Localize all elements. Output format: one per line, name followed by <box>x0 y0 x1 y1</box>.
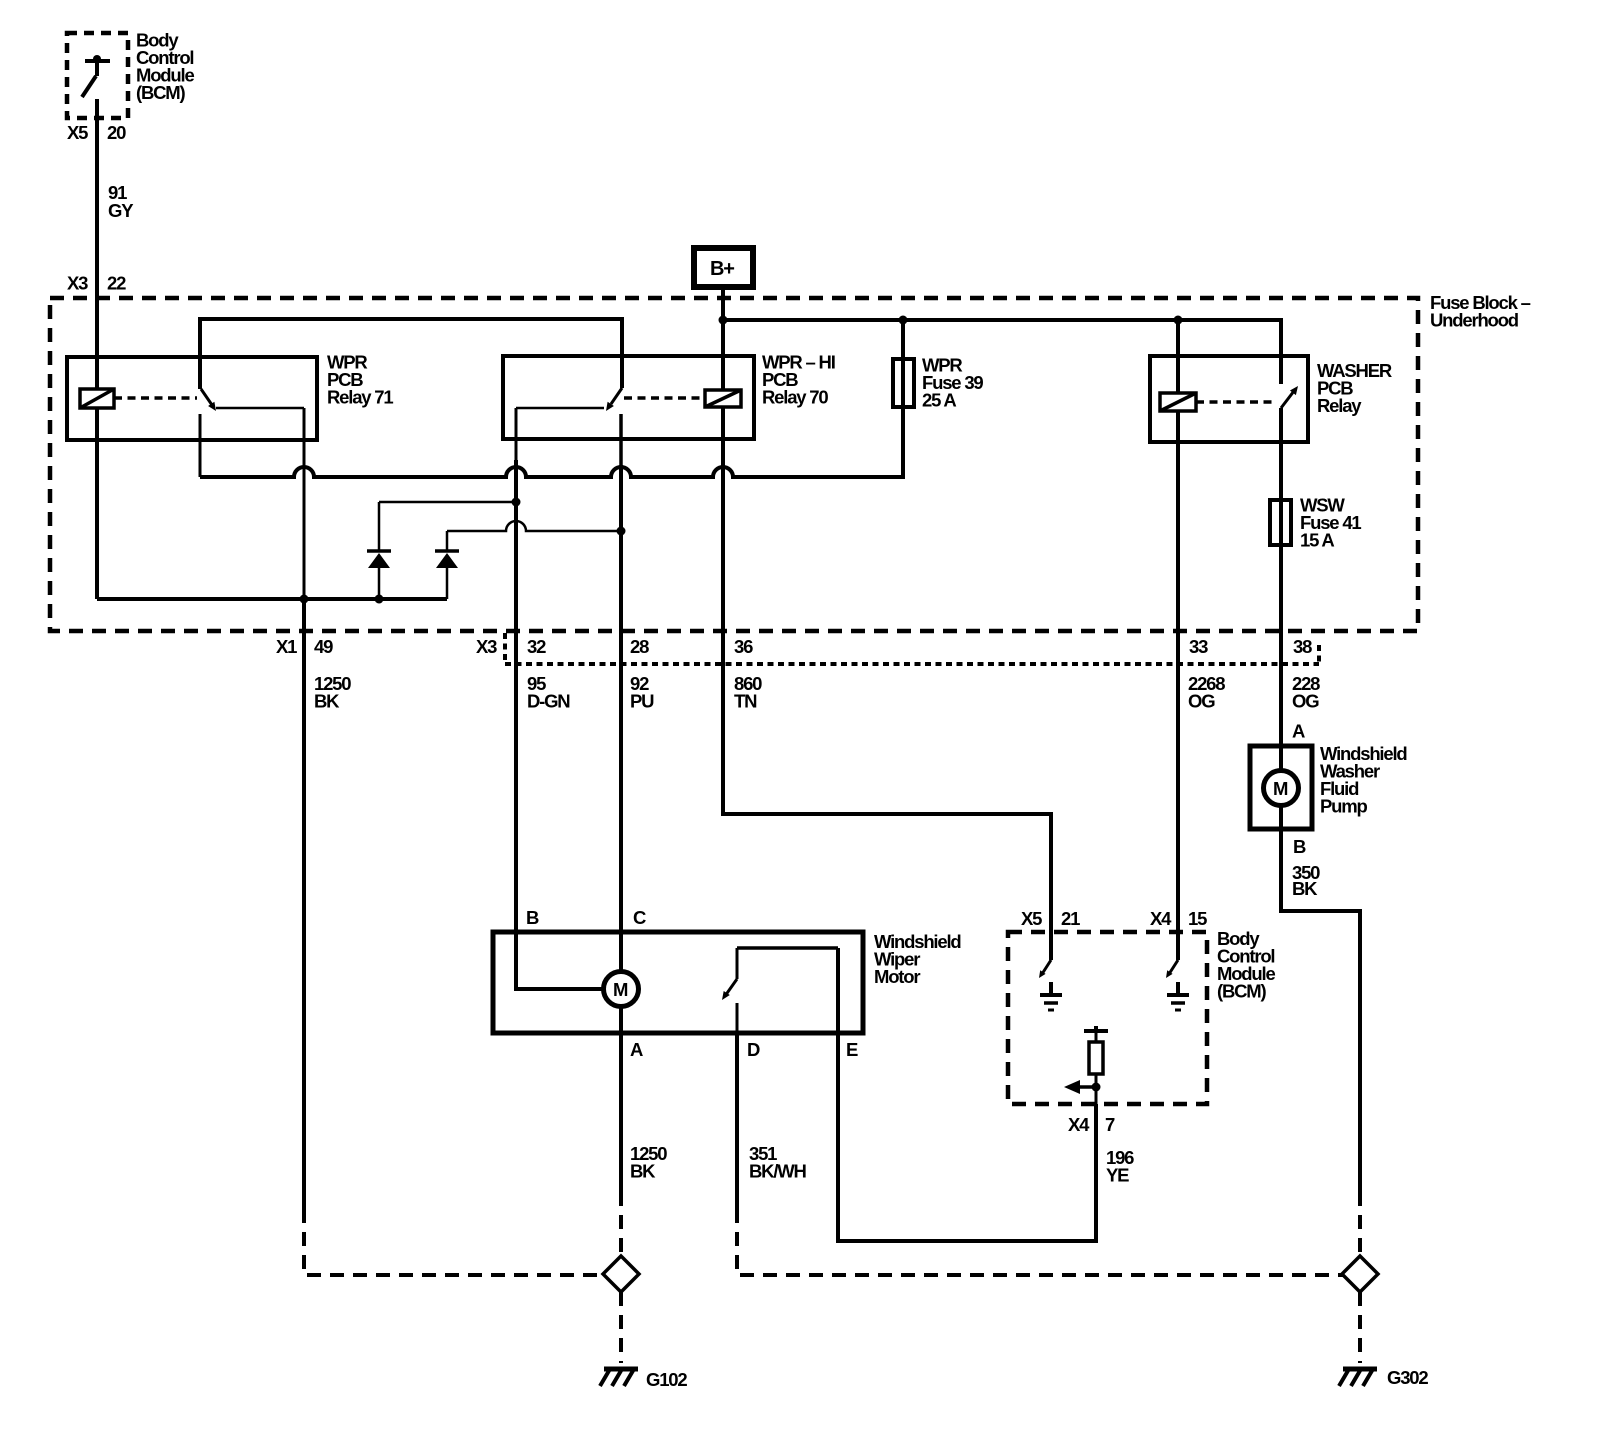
svg-text:D: D <box>747 1039 760 1060</box>
svg-text:21: 21 <box>1061 908 1080 929</box>
svg-text:B: B <box>526 907 539 928</box>
svg-text:X3: X3 <box>67 273 88 294</box>
svg-text:BK/WH: BK/WH <box>749 1161 807 1182</box>
svg-text:X4: X4 <box>1068 1114 1090 1135</box>
svg-text:49: 49 <box>314 636 333 657</box>
svg-text:15: 15 <box>1188 908 1207 929</box>
svg-text:E: E <box>846 1039 858 1060</box>
svg-text:M: M <box>613 979 628 1000</box>
svg-text:(BCM): (BCM) <box>1217 981 1266 1002</box>
svg-text:7: 7 <box>1105 1114 1115 1135</box>
svg-text:OG: OG <box>1188 691 1215 712</box>
svg-text:YE: YE <box>1106 1165 1129 1186</box>
svg-text:BK: BK <box>630 1161 656 1182</box>
svg-text:A: A <box>630 1039 643 1060</box>
svg-text:BK: BK <box>1292 878 1318 899</box>
svg-text:20: 20 <box>107 122 126 143</box>
svg-text:X5: X5 <box>67 122 88 143</box>
svg-text:G102: G102 <box>646 1369 687 1390</box>
svg-text:Relay: Relay <box>1317 395 1362 416</box>
svg-text:PU: PU <box>630 691 654 712</box>
svg-text:X5: X5 <box>1021 908 1042 929</box>
svg-text:38: 38 <box>1293 636 1312 657</box>
svg-text:33: 33 <box>1189 636 1208 657</box>
svg-text:B: B <box>1293 836 1306 857</box>
svg-text:D-GN: D-GN <box>527 691 570 712</box>
svg-text:15 A: 15 A <box>1300 530 1334 551</box>
svg-text:X4: X4 <box>1150 908 1172 929</box>
svg-text:BK: BK <box>314 691 340 712</box>
svg-text:25 A: 25 A <box>922 390 956 411</box>
svg-text:TN: TN <box>734 691 757 712</box>
svg-text:X1: X1 <box>276 636 297 657</box>
svg-text:C: C <box>633 907 646 928</box>
svg-text:M: M <box>1273 778 1288 799</box>
svg-text:32: 32 <box>527 636 546 657</box>
svg-text:(BCM): (BCM) <box>136 82 185 103</box>
svg-text:Relay 71: Relay 71 <box>327 387 393 408</box>
svg-text:22: 22 <box>107 273 126 294</box>
svg-text:X3: X3 <box>476 636 497 657</box>
svg-text:28: 28 <box>630 636 649 657</box>
svg-text:Relay 70: Relay 70 <box>762 387 828 408</box>
svg-text:Pump: Pump <box>1320 796 1367 817</box>
svg-text:B+: B+ <box>710 258 734 280</box>
svg-text:A: A <box>1292 721 1305 742</box>
svg-text:36: 36 <box>734 636 753 657</box>
svg-text:GY: GY <box>108 200 134 221</box>
svg-text:Underhood: Underhood <box>1430 310 1519 331</box>
svg-text:G302: G302 <box>1387 1367 1428 1388</box>
svg-text:Motor: Motor <box>874 966 920 987</box>
svg-text:OG: OG <box>1292 691 1319 712</box>
